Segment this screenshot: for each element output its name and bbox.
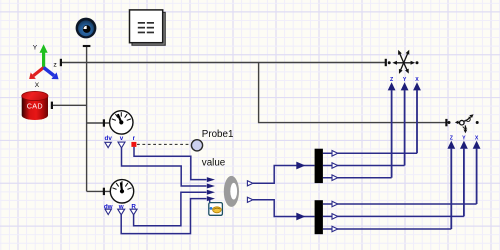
svg-text:Probe1: Probe1 bbox=[202, 129, 234, 140]
svg-text:value: value bbox=[202, 157, 226, 168]
svg-text:Y: Y bbox=[403, 77, 407, 83]
svg-text:Y: Y bbox=[33, 45, 38, 52]
svg-text:CAD: CAD bbox=[27, 101, 43, 110]
svg-text:dv: dv bbox=[105, 135, 113, 142]
svg-text:X: X bbox=[475, 135, 479, 141]
svg-text:z: z bbox=[53, 61, 57, 68]
svg-text:X: X bbox=[415, 77, 419, 83]
svg-text:v: v bbox=[120, 135, 124, 142]
svg-text:Y: Y bbox=[462, 135, 466, 141]
svg-text:X: X bbox=[35, 82, 40, 89]
